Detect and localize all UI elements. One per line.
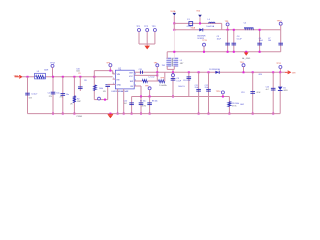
node bus R2 bbox=[73, 76, 75, 78]
node rail C13 bbox=[252, 113, 254, 115]
node C TP13 bbox=[203, 51, 205, 53]
wire L1 top pins bbox=[166, 57, 168, 58]
wire TP2 down bbox=[146, 32, 148, 44]
inductor L2a bbox=[142, 80, 147, 83]
testpoint TP3 bbox=[153, 29, 156, 32]
node bus EN divider bbox=[93, 76, 95, 78]
wire EN loop riser bbox=[107, 87, 109, 100]
svg-text:EN: EN bbox=[117, 79, 120, 81]
node C6 bottom bbox=[259, 51, 261, 53]
svg-text:AL_GND: AL_GND bbox=[242, 57, 251, 60]
node out TP4 bbox=[243, 71, 245, 73]
svg-text:LMR33630ADDAR: LMR33630ADDAR bbox=[112, 90, 129, 93]
capacitor C9 column bbox=[172, 77, 174, 97]
node A2 bbox=[199, 22, 201, 24]
wire TP10 stem bbox=[222, 94, 224, 97]
capacitor C19 column bbox=[62, 77, 64, 114]
node bus C1 bbox=[27, 76, 29, 78]
node rail C11 bbox=[198, 113, 200, 115]
node C3 bottom bbox=[227, 51, 229, 53]
testpoint TP13 bbox=[203, 43, 206, 46]
svg-text:10u: 10u bbox=[66, 94, 69, 96]
wire SW stub bbox=[134, 80, 142, 82]
svg-text:0R: 0R bbox=[70, 104, 73, 106]
node FB1 bbox=[140, 96, 142, 98]
diode D1 bbox=[215, 71, 219, 74]
testpoint TP6 bbox=[148, 87, 151, 90]
wire faint vertical to transformer bbox=[173, 30, 175, 58]
svg-text:R7 10k: R7 10k bbox=[140, 100, 146, 102]
node rail C15 bbox=[272, 113, 274, 115]
resistor R3 column bbox=[93, 77, 95, 100]
svg-text:4R7: 4R7 bbox=[180, 63, 183, 65]
port 1V8 output arrow bbox=[285, 71, 290, 74]
ground arrow main bbox=[109, 113, 111, 115]
wire VIN riser bbox=[93, 71, 95, 77]
resistor R9 column bbox=[228, 97, 230, 114]
testpoint TP5 bbox=[109, 64, 112, 67]
svg-text:C13: C13 bbox=[241, 92, 244, 94]
svg-text:DNP: DNP bbox=[77, 101, 82, 103]
svg-text:10u: 10u bbox=[56, 92, 59, 94]
testpoint TP12 bbox=[279, 22, 282, 25]
capacitor C1 column bbox=[27, 77, 29, 114]
svg-text:R3: R3 bbox=[84, 80, 86, 82]
testpoint TP1 bbox=[138, 29, 141, 32]
IC U1 box bbox=[115, 70, 134, 89]
inductor L1 coupled bbox=[166, 58, 178, 66]
wire flag 5V0 stem bbox=[199, 17, 201, 23]
wire EN loop bottom bbox=[94, 99, 107, 101]
wire TP13 stem bbox=[203, 46, 205, 52]
node rail R8 bbox=[149, 113, 151, 115]
wire ground rail bbox=[28, 113, 281, 115]
svg-text:VCC: VCC bbox=[129, 76, 134, 78]
wire TP12 stem bbox=[280, 25, 282, 30]
svg-text:5V0A: 5V0A bbox=[191, 26, 196, 29]
svg-text:2.2uH/4A: 2.2uH/4A bbox=[159, 84, 167, 87]
svg-text:0.1uF: 0.1uF bbox=[176, 81, 181, 83]
svg-text:C1 4u7: C1 4u7 bbox=[31, 93, 37, 95]
wire TP14 stem bbox=[52, 67, 54, 76]
svg-text:L4: L4 bbox=[208, 19, 211, 21]
wire IC gnd column 1 bbox=[117, 89, 119, 114]
wire FB stub bbox=[134, 85, 141, 87]
wire TP5 stem bbox=[109, 67, 111, 71]
capacitor C18 boot bbox=[140, 71, 142, 74]
svg-text:F1: F1 bbox=[187, 19, 190, 21]
svg-text:TP10: TP10 bbox=[216, 91, 221, 93]
wire SW riser bbox=[156, 72, 158, 81]
wire line B bbox=[174, 29, 280, 31]
svg-text:TP13: TP13 bbox=[202, 40, 206, 42]
wire TP11 stem bbox=[279, 69, 281, 73]
testpoint TP4 bbox=[242, 64, 245, 67]
svg-text:D1 SS34 3A: D1 SS34 3A bbox=[209, 68, 220, 71]
resistor R7 column bbox=[140, 97, 142, 114]
wire line B corner down bbox=[280, 30, 282, 52]
capacitor C6 column bbox=[259, 30, 261, 52]
svg-text:C10 DNP: C10 DNP bbox=[183, 80, 191, 82]
node rail R9 bbox=[228, 113, 230, 115]
diode D4 bbox=[199, 28, 202, 31]
svg-text:100k: 100k bbox=[99, 88, 103, 90]
testpoint TP11 bbox=[279, 66, 282, 69]
node C4 bottom bbox=[233, 51, 235, 53]
testpoint TP8 bbox=[226, 23, 229, 26]
wire IC gnd column 2 bbox=[123, 91, 125, 114]
svg-text:C18: C18 bbox=[139, 69, 142, 71]
svg-text:100k 1%: 100k 1% bbox=[178, 86, 185, 88]
svg-text:SW: SW bbox=[130, 81, 133, 83]
svg-text:1V8: 1V8 bbox=[292, 72, 296, 74]
svg-text:TP3: TP3 bbox=[152, 26, 157, 28]
node B2 bbox=[227, 29, 229, 31]
wire line C corner down to transformer bbox=[166, 52, 168, 58]
wire to ground bbox=[146, 44, 148, 46]
svg-text:104: 104 bbox=[268, 40, 271, 42]
wire flagstem through to line B bbox=[173, 23, 175, 29]
svg-text:GND: GND bbox=[117, 85, 122, 87]
testpoint TP2 bbox=[146, 29, 149, 32]
capacitor C3 column bbox=[227, 30, 229, 52]
ferrite bead L3 bbox=[35, 73, 46, 79]
wire SW mid bbox=[148, 80, 159, 82]
node B3 bbox=[233, 29, 235, 31]
svg-text:25V: 25V bbox=[49, 96, 53, 98]
capacitor C2 column bbox=[52, 77, 54, 114]
wire TP7 stem bbox=[156, 67, 158, 73]
capacitor C18a in EN loop bbox=[105, 85, 110, 87]
svg-text:L2 2u2: L2 2u2 bbox=[149, 76, 155, 78]
node bus C2 bbox=[52, 76, 54, 78]
svg-text:C2: C2 bbox=[48, 92, 50, 94]
testpoint TP7 bbox=[156, 64, 159, 67]
capacitor C7 column bbox=[278, 43, 283, 45]
wire VCC row bbox=[134, 74, 157, 76]
wire FB horizontal bbox=[132, 96, 230, 98]
svg-text:10u/3.9A: 10u/3.9A bbox=[206, 25, 214, 28]
node rail IC1 bbox=[117, 113, 119, 115]
svg-text:5V1A: 5V1A bbox=[170, 10, 176, 13]
capacitor C5 polarized bbox=[244, 27, 254, 28]
node bus C19 bbox=[62, 76, 64, 78]
svg-text:VIN: VIN bbox=[117, 74, 121, 76]
IC U1 pin stubs left bbox=[113, 73, 116, 75]
wire TP6 stem bbox=[149, 90, 151, 97]
wire output rail bbox=[134, 71, 285, 73]
svg-text:TP2: TP2 bbox=[144, 26, 149, 28]
svg-text:1V8: 1V8 bbox=[162, 65, 165, 67]
wire TP3 down bbox=[154, 32, 156, 44]
IC bottom pad stub bbox=[123, 89, 125, 91]
wire TP4 stem bbox=[243, 67, 245, 73]
node B1 bbox=[173, 29, 175, 31]
ground AGND arrow bbox=[245, 51, 247, 53]
resistor R8 column bbox=[149, 97, 151, 114]
testpoint EN bbox=[98, 97, 101, 100]
node rail C2 bbox=[52, 113, 54, 115]
svg-text:10uF: 10uF bbox=[217, 39, 222, 41]
svg-text:L1: L1 bbox=[180, 60, 183, 62]
svg-text:49.9k: 49.9k bbox=[232, 106, 236, 108]
node FB C9 bbox=[172, 96, 174, 98]
node out LED bbox=[279, 71, 281, 73]
capacitor C17 column bbox=[79, 77, 81, 91]
inductor L2 bbox=[159, 80, 165, 83]
wire TP1 down bbox=[138, 32, 140, 44]
node B4 bbox=[259, 29, 261, 31]
wire main bus bbox=[22, 76, 113, 78]
wire line A bbox=[174, 22, 221, 24]
svg-text:L3: L3 bbox=[37, 71, 40, 73]
wire VIN corner to pin bbox=[112, 71, 114, 74]
svg-text:PGND: PGND bbox=[77, 116, 83, 118]
svg-text:0402: 0402 bbox=[240, 104, 244, 106]
node rail C12 bbox=[208, 113, 210, 115]
svg-text:22uF: 22uF bbox=[195, 87, 199, 89]
wire L1 bottom pins bbox=[166, 66, 168, 69]
svg-text:47uF: 47uF bbox=[256, 92, 261, 94]
svg-text:C5: C5 bbox=[244, 23, 247, 25]
svg-text:0.1uF: 0.1uF bbox=[237, 39, 243, 41]
svg-text:TP1: TP1 bbox=[136, 26, 141, 28]
svg-text:600R: 600R bbox=[44, 70, 49, 72]
capacitor C13 column bbox=[252, 71, 254, 73]
node BST bbox=[156, 74, 158, 76]
led D5 column bbox=[279, 72, 281, 86]
testpoint TP14 bbox=[51, 64, 54, 67]
wire flag 5V1 stem bbox=[173, 16, 175, 24]
capacitor C15 column bbox=[272, 71, 274, 73]
node VIN TP5 bbox=[109, 70, 111, 72]
capacitor C10 column bbox=[188, 71, 190, 73]
wire cap to GND pin bbox=[107, 83, 109, 85]
svg-text:TP6: TP6 bbox=[145, 85, 148, 87]
resistor R2 column bbox=[73, 77, 75, 114]
svg-text:22uF: 22uF bbox=[205, 87, 209, 89]
node rail FBcol bbox=[131, 113, 133, 115]
node rail IC2 bbox=[123, 113, 125, 115]
svg-text:R8 10k: R8 10k bbox=[152, 100, 158, 102]
testpoint TP9 inline bbox=[172, 71, 174, 73]
wire line C bbox=[167, 51, 281, 53]
svg-text:104: 104 bbox=[124, 103, 127, 105]
node rail R2 bbox=[73, 113, 75, 115]
node EN loop bbox=[104, 99, 106, 101]
capacitor C12 column bbox=[208, 71, 210, 73]
inductor L4 bbox=[209, 22, 215, 23]
svg-text:16V: 16V bbox=[103, 91, 107, 93]
svg-text:FB: FB bbox=[130, 86, 133, 88]
wire TP common bar bbox=[139, 43, 155, 45]
capacitor C11 column bbox=[198, 71, 200, 73]
node rail R7 bbox=[140, 113, 142, 115]
capacitor C4 column bbox=[233, 30, 235, 52]
port VBAT input arrow bbox=[15, 75, 22, 78]
svg-text:50V: 50V bbox=[29, 97, 33, 99]
testpoint TP10 bbox=[221, 91, 224, 94]
svg-text:10uF: 10uF bbox=[259, 40, 264, 42]
node FB TP6 bbox=[149, 96, 151, 98]
wire TP8 stem bbox=[227, 26, 229, 30]
node rail C19 bbox=[62, 113, 64, 115]
wire VIN top bbox=[94, 70, 112, 72]
wire FB down bbox=[140, 86, 142, 97]
svg-text:4u7: 4u7 bbox=[266, 89, 269, 91]
wire FB corner col bbox=[131, 97, 133, 114]
svg-text:BST: BST bbox=[129, 73, 134, 75]
node out1 bbox=[156, 71, 158, 73]
svg-text:5V0: 5V0 bbox=[196, 10, 200, 12]
node FB TP10 bbox=[222, 96, 224, 98]
svg-text:GRN: GRN bbox=[283, 90, 288, 92]
node bus C17 bbox=[79, 76, 81, 78]
wire L1 to output rail bbox=[172, 69, 174, 72]
wire L2 up to rail bbox=[164, 72, 166, 81]
node A1 bbox=[173, 22, 175, 24]
fuse F1 bbox=[189, 22, 193, 26]
node C1 bbox=[173, 51, 175, 53]
wire line A corner down bbox=[221, 23, 223, 29]
svg-text:49.9k: 49.9k bbox=[142, 105, 146, 107]
svg-text:TP11: TP11 bbox=[276, 63, 282, 65]
svg-text:PV: PV bbox=[78, 73, 81, 75]
svg-text:0R0: 0R0 bbox=[259, 74, 262, 76]
ground arrow bbox=[144, 46, 150, 50]
